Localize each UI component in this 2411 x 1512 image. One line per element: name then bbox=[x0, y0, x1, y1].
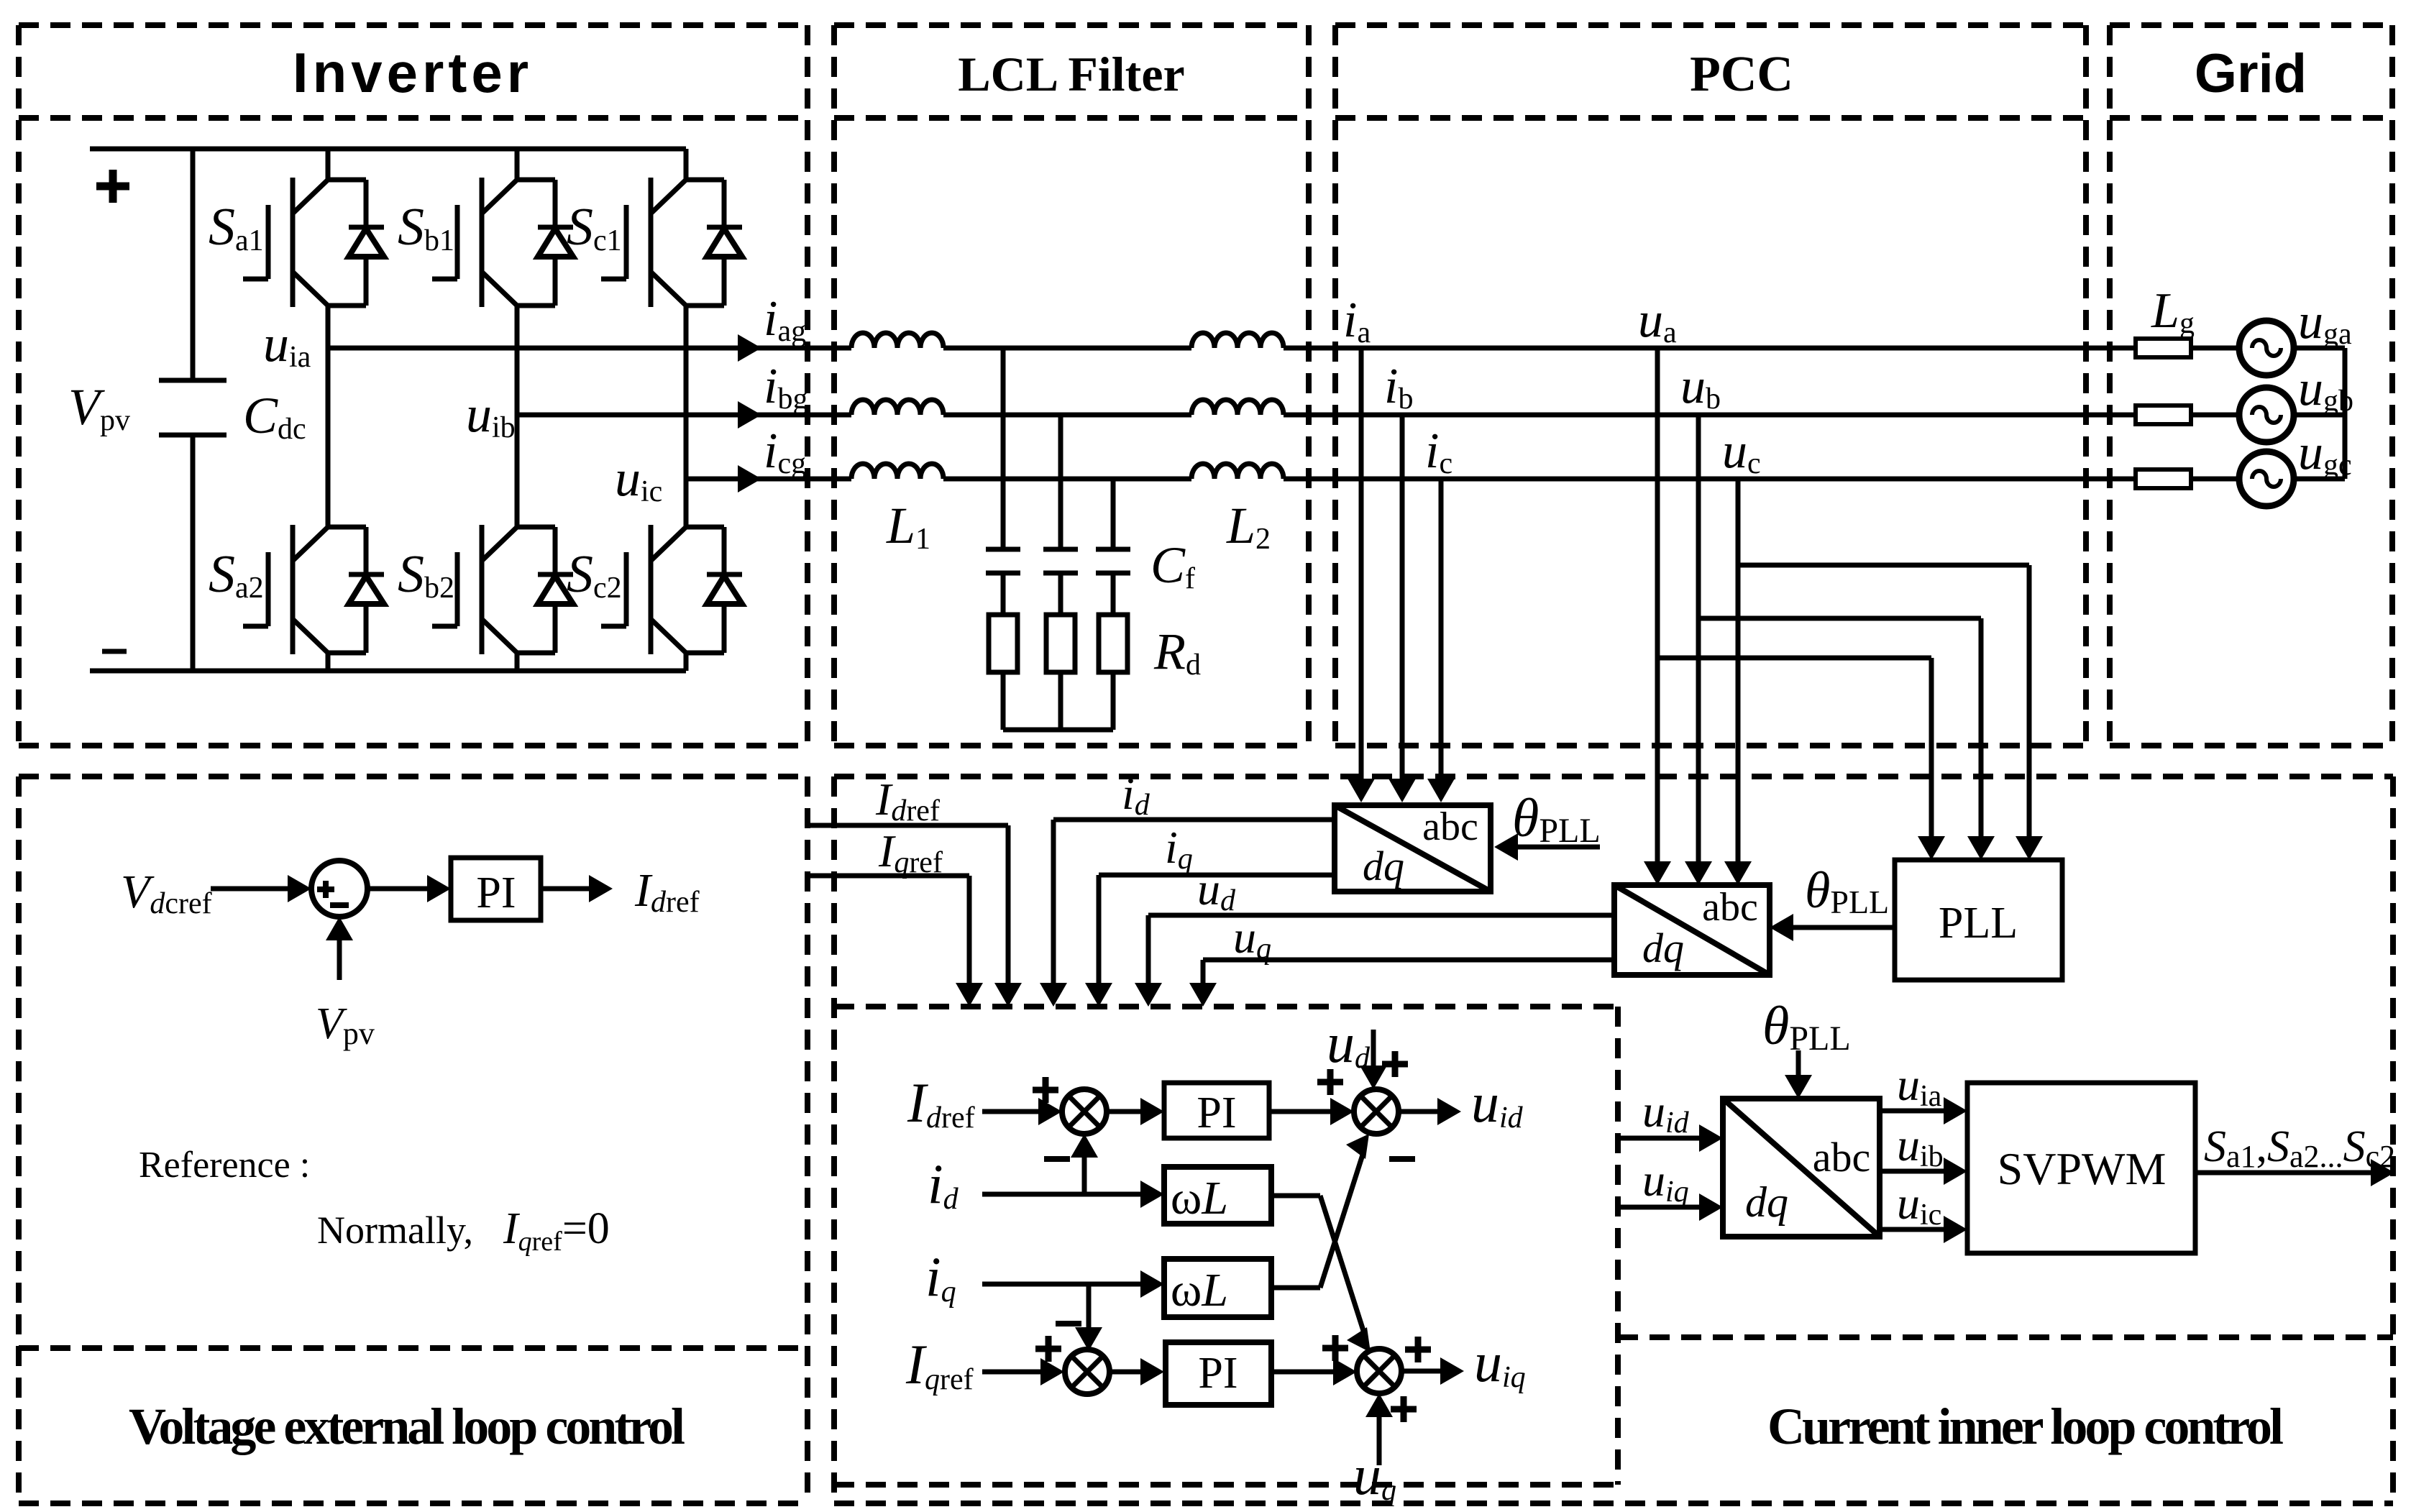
svg-text:abc: abc bbox=[1813, 1134, 1871, 1181]
svg-text:PI: PI bbox=[476, 869, 516, 917]
svg-text:Inverter: Inverter bbox=[293, 41, 533, 104]
svg-text:PCC: PCC bbox=[1690, 47, 1793, 102]
svg-text:dq: dq bbox=[1642, 925, 1684, 971]
svg-text:PLL: PLL bbox=[1939, 899, 2018, 948]
svg-text:Normally,: Normally, bbox=[317, 1209, 473, 1252]
svg-text:Grid: Grid bbox=[2195, 43, 2307, 104]
svg-text:dq: dq bbox=[1363, 843, 1404, 889]
svg-text:Reference :: Reference : bbox=[139, 1145, 310, 1186]
svg-text:dq: dq bbox=[1745, 1178, 1788, 1226]
svg-text:SVPWM: SVPWM bbox=[1998, 1143, 2167, 1194]
svg-text:LCL Filter: LCL Filter bbox=[958, 47, 1184, 101]
svg-text:abc: abc bbox=[1422, 805, 1478, 849]
svg-text:PI: PI bbox=[1197, 1089, 1236, 1137]
svg-text:abc: abc bbox=[1702, 885, 1758, 930]
svg-text:PI: PI bbox=[1198, 1349, 1237, 1398]
svg-text:Current inner loop control: Current inner loop control bbox=[1767, 1398, 2283, 1455]
svg-text:ωL: ωL bbox=[1171, 1172, 1228, 1224]
svg-text:ωL: ωL bbox=[1171, 1264, 1228, 1316]
svg-text:Voltage external loop control: Voltage external loop control bbox=[129, 1398, 685, 1455]
